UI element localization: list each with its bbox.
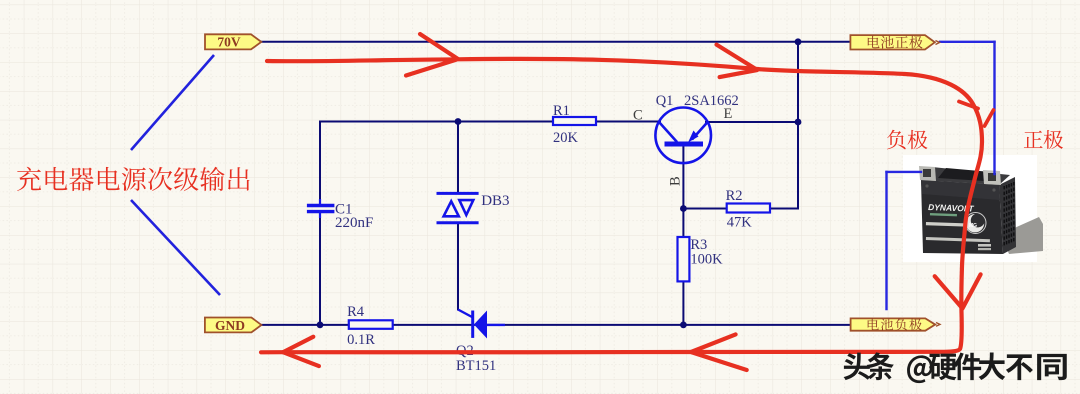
- svg-text:DB3: DB3: [481, 193, 509, 209]
- svg-text:C: C: [633, 108, 643, 124]
- svg-text:47K: 47K: [727, 214, 753, 230]
- svg-text:BT151: BT151: [456, 358, 496, 374]
- svg-text:E: E: [724, 106, 733, 122]
- svg-text:R3: R3: [690, 237, 707, 253]
- svg-text:MG: MG: [969, 223, 977, 229]
- svg-text:GND: GND: [215, 318, 245, 333]
- svg-text:0.1R: 0.1R: [347, 332, 375, 348]
- svg-text:R2: R2: [726, 188, 743, 204]
- svg-text:B: B: [668, 176, 684, 186]
- svg-text:20K: 20K: [553, 130, 579, 146]
- svg-text:R4: R4: [347, 304, 365, 320]
- svg-text:100K: 100K: [690, 252, 723, 268]
- svg-text:220nF: 220nF: [335, 215, 373, 231]
- svg-text:R1: R1: [553, 103, 570, 119]
- svg-text:70V: 70V: [217, 35, 241, 50]
- svg-text:Q1: Q1: [656, 93, 674, 109]
